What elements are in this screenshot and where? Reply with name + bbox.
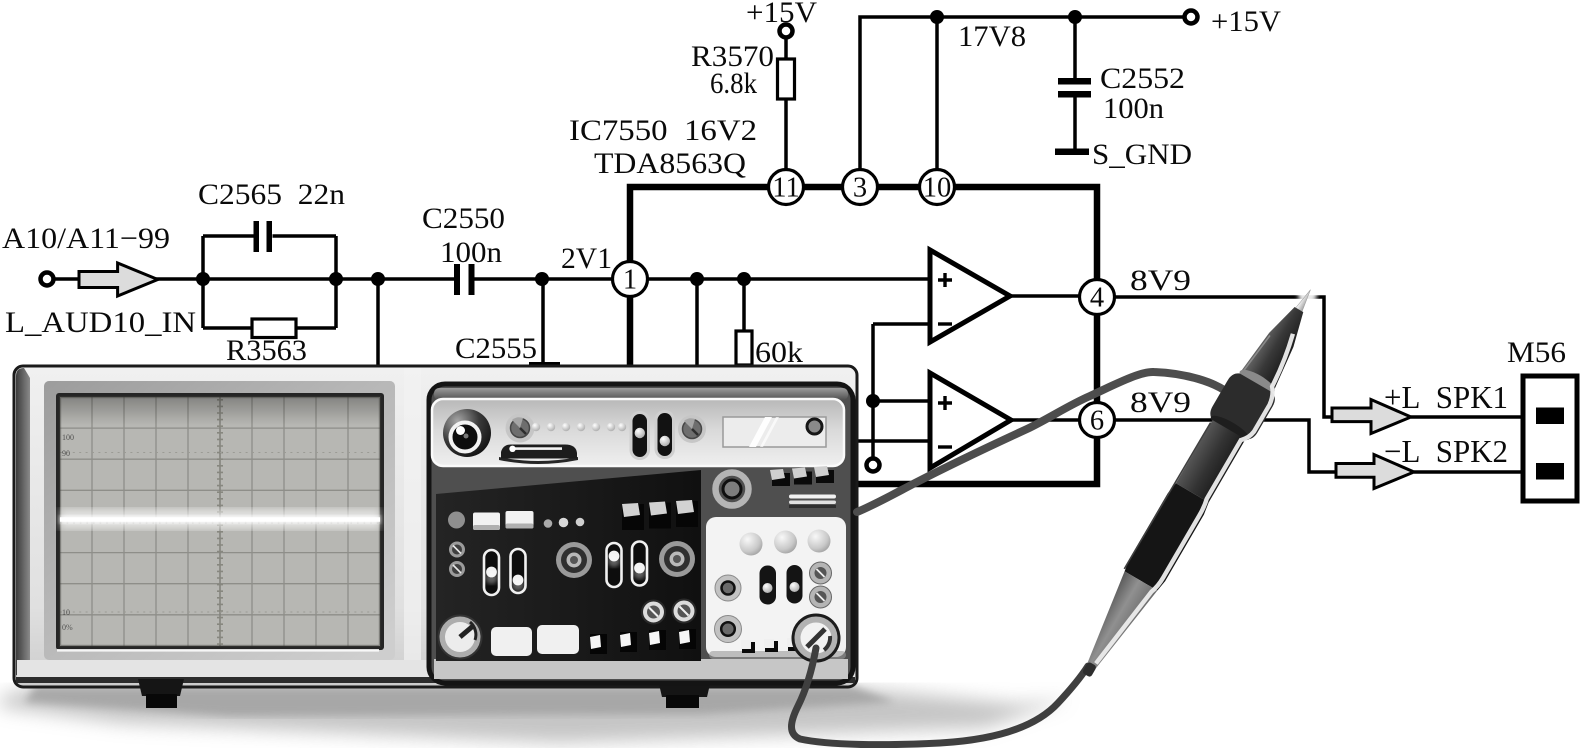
- svg-text:8V9: 8V9: [1130, 386, 1191, 419]
- svg-text:TDA8563Q: TDA8563Q: [594, 147, 746, 180]
- svg-text:6.8k: 6.8k: [710, 67, 757, 100]
- svg-text:4: 4: [1090, 283, 1104, 314]
- svg-text:A10/A11−99: A10/A11−99: [2, 222, 170, 255]
- svg-text:R3563: R3563: [226, 334, 307, 367]
- svg-text:100n: 100n: [440, 236, 502, 269]
- svg-text:−L SPK2: −L SPK2: [1384, 433, 1508, 469]
- svg-text:+15V: +15V: [1211, 5, 1281, 38]
- svg-text:60k: 60k: [755, 336, 803, 369]
- svg-text:10: 10: [62, 608, 70, 617]
- svg-text:2V1: 2V1: [561, 242, 612, 275]
- svg-text:C2550: C2550: [422, 202, 505, 235]
- svg-text:S_GND: S_GND: [1092, 138, 1192, 171]
- svg-text:+15V: +15V: [746, 0, 817, 29]
- svg-text:L_AUD10_IN: L_AUD10_IN: [5, 306, 196, 339]
- svg-text:+L SPK1: +L SPK1: [1384, 379, 1508, 415]
- svg-text:IC7550 16V2: IC7550 16V2: [569, 114, 757, 147]
- svg-text:C2555: C2555: [455, 332, 537, 365]
- svg-text:6: 6: [1090, 406, 1104, 437]
- svg-text:17V8: 17V8: [958, 20, 1026, 53]
- svg-text:3: 3: [853, 173, 867, 204]
- svg-text:11: 11: [772, 173, 799, 204]
- svg-text:0%: 0%: [62, 623, 73, 632]
- svg-text:100n: 100n: [1103, 92, 1164, 125]
- svg-text:8V9: 8V9: [1130, 264, 1191, 297]
- svg-text:C2565 22n: C2565 22n: [198, 178, 345, 211]
- svg-text:M56: M56: [1507, 336, 1566, 369]
- svg-text:90: 90: [62, 449, 70, 458]
- svg-text:100: 100: [62, 433, 74, 442]
- svg-text:10: 10: [923, 173, 952, 204]
- svg-text:1: 1: [623, 265, 637, 296]
- svg-text:C2552: C2552: [1100, 62, 1185, 95]
